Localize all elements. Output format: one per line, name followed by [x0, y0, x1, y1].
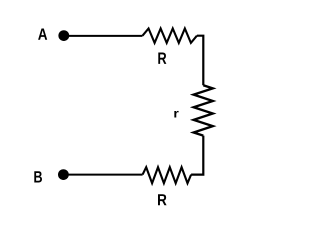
resistor r (vertical, value r)	[194, 85, 213, 135]
resistor R2 (bottom, value R)	[143, 167, 192, 183]
label A	[38, 29, 47, 40]
resistor R1 (top, value R)	[143, 29, 197, 43]
label B	[34, 171, 42, 182]
wire resistor r to resistor R2 (bottom-right corner)	[191, 136, 203, 175]
wire node A to resistor R1	[64, 35, 143, 37]
node B terminal dot	[58, 169, 69, 180]
label R (value of R1)	[158, 53, 166, 64]
wire R1 to resistor r (top-right corner)	[197, 36, 203, 85]
label r (value of vertical resistor)	[174, 111, 178, 118]
wire resistor R2 to node B	[63, 174, 142, 176]
node A terminal dot	[58, 30, 69, 41]
label R (value of R2)	[158, 194, 167, 205]
